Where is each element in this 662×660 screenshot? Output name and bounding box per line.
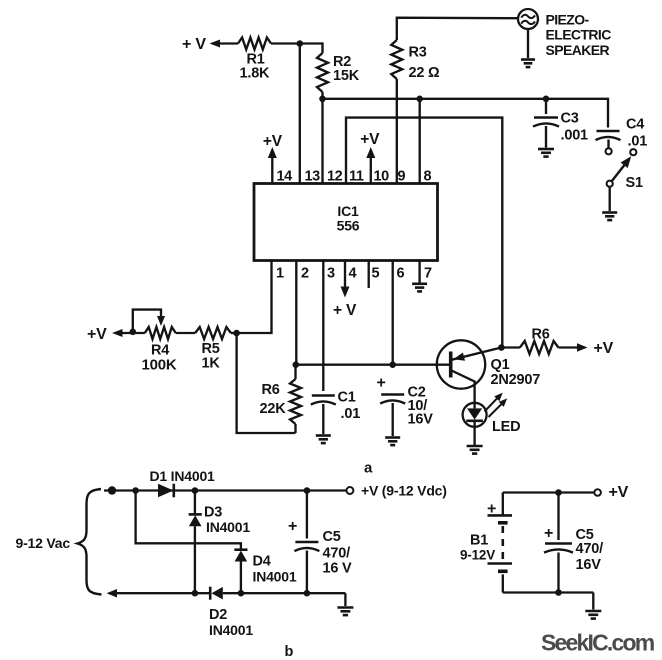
svg-text:.001: .001 — [561, 128, 589, 144]
transistor Q1 body — [437, 340, 485, 388]
svg-text:5: 5 — [372, 266, 380, 282]
node D1/D3 junction — [192, 487, 199, 494]
svg-text:SeekIC.com: SeekIC.com — [541, 630, 655, 656]
switch S1 fixed terminal — [630, 149, 636, 155]
wire AC top rail — [104, 489, 349, 491]
svg-text:C1: C1 — [338, 390, 356, 406]
capacitor C5 (b) — [295, 541, 318, 543]
node C5c top junction — [555, 489, 562, 496]
ground C3 — [538, 148, 554, 151]
svg-text:9-12V: 9-12V — [460, 548, 495, 563]
wire pin 2 drop — [295, 260, 297, 365]
capacitor C3 — [534, 116, 558, 118]
wire R6 to +V arrow — [558, 346, 578, 348]
svg-text:470/: 470/ — [576, 541, 604, 557]
svg-text:2: 2 — [301, 266, 309, 282]
node C5b bottom junction — [304, 590, 311, 597]
transistor Q1 collector — [452, 371, 475, 404]
wire pin1-node down to R6 bottom — [237, 333, 296, 433]
svg-text:B1: B1 — [470, 533, 488, 549]
capacitor C1 — [312, 394, 335, 396]
wire pin 5 stub — [368, 260, 370, 289]
wire R4-R5 — [176, 332, 196, 334]
svg-text:22 Ω: 22 Ω — [409, 65, 441, 81]
node pin8 junction — [416, 96, 423, 103]
svg-text:16 V: 16 V — [323, 561, 353, 577]
LED D5 body — [463, 403, 487, 427]
ground pin 7 — [412, 282, 427, 285]
ground circuit c — [592, 593, 594, 610]
svg-text:R6: R6 — [532, 327, 550, 343]
battery B1 — [488, 514, 513, 517]
svg-text:14: 14 — [277, 169, 293, 185]
svg-text:9: 9 — [398, 169, 406, 185]
wire pin 1 to R5 node — [237, 260, 272, 334]
svg-text:13: 13 — [305, 169, 321, 185]
wire pin 3 drop to C1 — [322, 260, 324, 392]
wire D3 branch — [194, 491, 196, 515]
wire C5b lower lead — [306, 551, 308, 594]
wire C5c upper lead — [557, 493, 559, 541]
resistor R6 (22K) — [290, 379, 301, 424]
transistor Q1 emitter — [452, 348, 502, 360]
svg-text:8: 8 — [424, 169, 432, 185]
wire node A down to pin 13 — [299, 44, 301, 185]
svg-text:+V: +V — [263, 133, 283, 150]
transistor Q1 base bar — [449, 352, 453, 378]
wire R1 +V arrow — [210, 40, 221, 48]
resistor R3 — [391, 40, 402, 79]
svg-text:LED: LED — [492, 419, 520, 435]
LED light arrow 1 — [485, 396, 500, 412]
svg-text:3: 3 — [327, 266, 335, 282]
node C3 junction — [543, 96, 550, 103]
resistor R4 — [145, 327, 176, 339]
svg-text:IN4001: IN4001 — [209, 622, 253, 638]
wire R3 to pin 9 — [396, 79, 398, 185]
wire AC bottom rail — [107, 589, 118, 598]
wire c bottom rail — [503, 591, 594, 593]
svg-text:9-12 Vac: 9-12 Vac — [16, 535, 71, 551]
wire base bus — [296, 364, 451, 366]
svg-text:PIEZO-: PIEZO- — [546, 12, 590, 28]
capacitor C5 (c) — [545, 542, 572, 544]
svg-text:SPEAKER: SPEAKER — [546, 42, 610, 58]
svg-text:b: b — [285, 644, 294, 660]
brace 9-12 Vac — [78, 489, 102, 595]
node C4 terminal — [606, 148, 612, 154]
wire +V arrow left — [112, 329, 123, 337]
node R4 wiper junction — [130, 329, 137, 336]
svg-text:D4: D4 — [253, 554, 271, 570]
svg-text:22K: 22K — [260, 401, 287, 417]
svg-text:4: 4 — [349, 266, 357, 282]
node AC2 junction — [132, 487, 139, 494]
wire C3 lower lead — [545, 126, 547, 148]
wire pin 7 stub — [418, 260, 420, 283]
wire piezo stem — [527, 29, 529, 58]
node AC top terminal — [108, 486, 116, 494]
svg-text:16V: 16V — [576, 557, 602, 573]
wire AC2 to D4 — [136, 491, 241, 550]
svg-text:+V (9-12 Vdc): +V (9-12 Vdc) — [361, 483, 447, 499]
power +V pin 4 arrow — [344, 260, 346, 289]
resistor R5 — [195, 327, 231, 339]
wire pin 6 drop — [392, 260, 394, 365]
node R5/pin1 junction — [233, 330, 240, 337]
resistor R1 — [238, 38, 271, 50]
svg-text:+: + — [288, 518, 297, 535]
LED light arrow 2 — [489, 402, 505, 417]
svg-text:+V: +V — [87, 326, 107, 343]
wire B1 top lead — [502, 493, 504, 516]
node pin6/C2 junction — [389, 361, 396, 368]
switch S1 pole terminal — [607, 181, 613, 187]
svg-text:D1 IN4001: D1 IN4001 — [150, 468, 216, 484]
node pin2/R6 junction — [293, 361, 300, 368]
svg-text:IN4001: IN4001 — [206, 519, 250, 535]
svg-text:C3: C3 — [561, 111, 579, 127]
svg-text:ELECTRIC: ELECTRIC — [546, 27, 612, 43]
svg-text:R6: R6 — [262, 382, 280, 398]
switch S1 lever — [610, 163, 626, 184]
svg-text:S1: S1 — [626, 175, 643, 191]
svg-text:+: + — [544, 525, 553, 542]
potentiometer R4 wiper loop — [133, 310, 161, 332]
capacitor C2 — [381, 393, 404, 395]
svg-text:C5: C5 — [323, 529, 341, 545]
ground C1 — [316, 434, 331, 437]
svg-text:100K: 100K — [142, 356, 177, 373]
svg-text:.01: .01 — [341, 406, 361, 422]
wire R2 bottom lead — [321, 92, 323, 99]
wire S1 to ground — [609, 187, 611, 211]
svg-text:1: 1 — [276, 266, 284, 282]
node +V terminal c — [594, 489, 601, 496]
wire D4 lower lead — [240, 562, 242, 594]
LED triangle — [467, 408, 482, 419]
svg-text:6: 6 — [397, 266, 405, 282]
op-amp U1 body (IC1 556) — [254, 184, 438, 261]
svg-text:C4: C4 — [626, 117, 644, 133]
diode D2 — [209, 587, 212, 600]
wire pin 8 riser — [419, 99, 421, 185]
wire C5c lower lead — [557, 553, 559, 593]
ground LED — [467, 445, 483, 448]
svg-text:11: 11 — [349, 169, 364, 185]
wire R3 top to piezo — [397, 18, 519, 40]
node D4 bottom junction — [238, 590, 245, 597]
node A junction — [297, 40, 304, 47]
capacitor C4 — [597, 130, 620, 132]
wire C5b upper lead — [306, 491, 308, 539]
svg-text:1.8K: 1.8K — [240, 66, 271, 82]
svg-text:10: 10 — [374, 169, 390, 185]
power +V pin 14 arrow — [271, 157, 273, 185]
diode D4 — [234, 548, 247, 551]
wire C4 lower lead — [607, 140, 609, 149]
svg-text:+V: +V — [360, 131, 380, 148]
svg-text:Q1: Q1 — [491, 357, 510, 373]
svg-text:556: 556 — [337, 218, 360, 234]
power +V pin 10 arrow — [370, 157, 372, 185]
svg-text:1K: 1K — [202, 356, 221, 372]
wire B1 bottom lead — [502, 574, 504, 592]
ground S1 — [602, 211, 617, 214]
svg-text:IN4001: IN4001 — [253, 569, 297, 585]
node C5b top junction — [304, 487, 311, 494]
diode D3 — [189, 513, 202, 516]
svg-text:7: 7 — [424, 266, 432, 282]
wire C3 upper lead — [545, 99, 547, 114]
wire LED to ground — [473, 427, 475, 445]
svg-text:16V: 16V — [408, 412, 434, 428]
svg-text:+ V: + V — [182, 36, 206, 53]
wire node B bus to C4 — [323, 98, 609, 100]
node B junction (R2 bottom) — [319, 96, 326, 103]
node +V output terminal — [346, 487, 353, 494]
wire R1 to node A — [271, 42, 323, 44]
node emitter/R6 junction — [498, 344, 505, 351]
ground circuit b — [344, 593, 346, 606]
wire C2 lower lead — [392, 403, 394, 436]
svg-text:+ V: + V — [333, 302, 357, 319]
svg-text:15K: 15K — [333, 68, 360, 84]
diode D1 — [158, 484, 174, 498]
svg-text:D2: D2 — [209, 607, 227, 623]
wire C4 upper lead — [607, 98, 609, 128]
wire node B down to pin 12 — [321, 99, 323, 185]
svg-text:+V: +V — [594, 340, 614, 357]
resistor R2 — [317, 53, 328, 92]
wire R5 right — [231, 332, 237, 334]
node C5c bottom junction — [555, 589, 562, 596]
wire C1 lower lead — [322, 404, 324, 434]
svg-text:+: + — [377, 375, 386, 392]
svg-text:+V: +V — [609, 484, 629, 501]
svg-text:470/: 470/ — [323, 546, 351, 562]
ground C2 — [385, 436, 400, 439]
wire c top rail — [503, 491, 595, 493]
node D3/AC junction — [192, 590, 199, 597]
svg-text:2N2907: 2N2907 — [491, 372, 541, 388]
wire pin 11 route to Q1 emitter node — [346, 118, 502, 348]
svg-text:12: 12 — [327, 169, 343, 185]
svg-text:a: a — [364, 460, 373, 477]
svg-text:R3: R3 — [409, 45, 427, 61]
wire node A to R2 top — [321, 42, 323, 53]
resistor R6 (emitter) — [520, 341, 559, 354]
svg-text:.01: .01 — [628, 134, 648, 150]
piezo speaker BZ1 — [518, 9, 538, 29]
ground piezo — [521, 58, 535, 61]
